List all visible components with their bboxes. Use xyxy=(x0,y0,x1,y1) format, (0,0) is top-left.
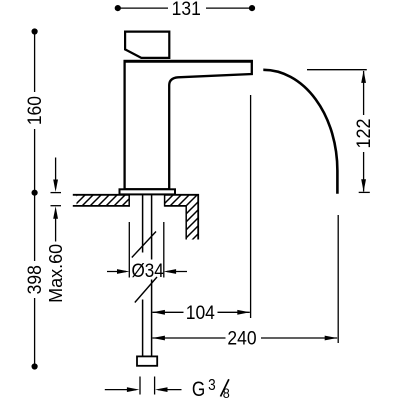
counter right slab bottom line xyxy=(165,205,187,207)
svg-text:160: 160 xyxy=(24,96,46,125)
dim max60 lower tick xyxy=(51,205,62,207)
dim 160 text knockout xyxy=(26,92,43,129)
faucet handle xyxy=(125,32,169,58)
counter left slab hatch xyxy=(77,196,130,206)
counter left slab bottom line xyxy=(73,205,130,207)
faucet top edge thick xyxy=(124,60,253,63)
counter hole left edge xyxy=(128,194,130,207)
dim dia34 right extension line xyxy=(163,222,165,278)
dim g38 left arrow xyxy=(105,389,136,391)
faucet base flange xyxy=(120,189,176,194)
counter hole right edge xyxy=(164,194,166,207)
counter left slab top line xyxy=(73,194,130,196)
dim dia34 left extension line xyxy=(128,222,130,278)
dim 104 text knockout xyxy=(184,304,218,321)
pipe break slash upper xyxy=(132,232,156,258)
dim 398 line xyxy=(34,193,36,367)
svg-text:240: 240 xyxy=(227,327,256,349)
dim 131 left dot xyxy=(115,5,121,11)
svg-text:104: 104 xyxy=(186,301,215,323)
svg-text:122: 122 xyxy=(353,118,375,148)
dim 131 line xyxy=(118,7,252,9)
svg-text:8: 8 xyxy=(223,386,230,400)
water stream arc xyxy=(263,70,337,194)
dim 122 bottom tick xyxy=(359,191,370,193)
dim dia34 left arrow xyxy=(107,271,126,273)
counter right outer edge xyxy=(197,194,199,240)
dia34 text knockout xyxy=(132,260,163,280)
dim 240 right extension line xyxy=(337,215,339,343)
supply pipe left line upper xyxy=(142,193,144,253)
counter right slab hatch (L shape) xyxy=(165,196,198,240)
dim max60 upper arrow xyxy=(55,158,57,185)
dim 104 right extension line xyxy=(250,95,252,318)
supply pipe right line xyxy=(151,193,153,357)
faucet body and spout xyxy=(125,61,252,189)
dim 240 text knockout xyxy=(226,330,262,347)
dim dia34 right arrow xyxy=(167,271,187,273)
counter right slab top line xyxy=(165,194,199,196)
pipe break slash lower xyxy=(135,277,157,303)
dim max60 upper tick xyxy=(51,192,62,194)
dim g38 right arrow xyxy=(158,389,182,391)
svg-text:Ø34: Ø34 xyxy=(131,260,163,281)
dim 122 top extension line xyxy=(307,69,367,71)
dim 131 text knockout xyxy=(168,0,206,17)
dim max60 lower arrow xyxy=(55,214,57,242)
svg-text:131: 131 xyxy=(172,0,201,19)
svg-text:3: 3 xyxy=(208,377,216,394)
supply nut xyxy=(137,356,157,365)
dim 122 top arrowhead xyxy=(361,70,366,83)
dim 240 left arrowhead xyxy=(152,336,165,341)
dim 398 bottom dot xyxy=(31,363,37,369)
dim 160 line xyxy=(34,32,36,193)
svg-text:Max.60: Max.60 xyxy=(46,244,66,303)
dim 160 bottom dot xyxy=(31,190,37,196)
dim 160 top dot xyxy=(31,28,37,34)
dim g38 right tick xyxy=(154,377,156,395)
dim 122 text knockout xyxy=(355,115,372,152)
dim 240 line xyxy=(152,337,337,339)
dim 122 bottom arrowhead xyxy=(361,179,366,192)
dim g38 left tick xyxy=(139,377,141,395)
dim 104 right arrowhead xyxy=(237,310,250,315)
svg-text:398: 398 xyxy=(24,265,46,294)
dim 122 line xyxy=(363,71,365,192)
dim 398 text knockout xyxy=(26,261,43,298)
supply pipe left line lower xyxy=(142,300,144,357)
dim 131 right dot xyxy=(249,5,255,11)
svg-text:G: G xyxy=(192,377,205,400)
dim 104 left arrowhead xyxy=(152,310,165,315)
dim 240 right arrowhead xyxy=(325,336,338,341)
dim g38 fraction slash xyxy=(221,379,229,396)
counter right inner edge xyxy=(185,205,187,239)
dim 104 line xyxy=(152,311,249,313)
